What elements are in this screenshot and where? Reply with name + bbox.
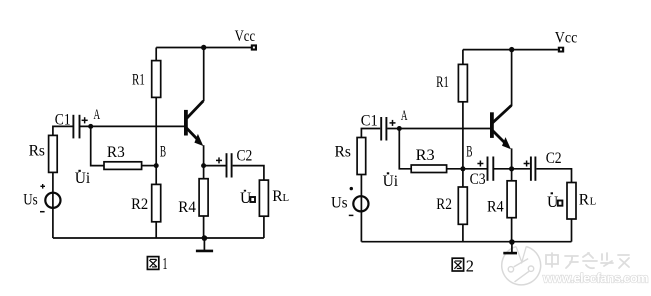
wire node A down to R3	[91, 126, 104, 165]
resistor R4	[199, 179, 208, 216]
label 图1 fig1	[147, 257, 158, 270]
wire emitter node to C2 fig2	[512, 168, 530, 170]
node dot rail/collector fig2	[509, 47, 514, 52]
resistor Rs fig2	[357, 138, 366, 175]
capacitor C2	[227, 153, 232, 177]
wire Rs through source Us to bottom rail fig2	[360, 175, 362, 242]
plus sign at C2 fig1	[216, 157, 222, 163]
wire base line fig2	[387, 128, 490, 130]
square o of Uo fig1	[250, 197, 255, 202]
plus sign at C1 fig1	[82, 117, 88, 123]
node ground fig2	[509, 239, 515, 245]
svg-text:C1: C1	[361, 113, 378, 130]
svg-text:2: 2	[466, 256, 474, 275]
ground stub fig1	[203, 238, 205, 250]
wire collector to Vcc rail	[203, 48, 205, 102]
svg-text:www.elecfans.com: www.elecfans.com	[542, 272, 649, 286]
wire R4 to bottom rail fig2	[511, 218, 513, 242]
ground bar fig1	[196, 250, 213, 253]
label 图2 fig2	[452, 258, 463, 271]
svg-text:A: A	[401, 108, 408, 124]
node emitter fig1	[201, 163, 206, 168]
node A fig2	[397, 126, 402, 131]
svg-text:C2: C2	[237, 148, 253, 165]
Vcc terminal fig1	[251, 44, 257, 50]
wire R1 bottom to node B	[155, 97, 157, 165]
capacitor C1 fig2	[381, 117, 386, 141]
Q1 base bar	[184, 110, 188, 136]
wire bottom rail fig1	[53, 237, 264, 239]
svg-text:R4: R4	[487, 199, 504, 216]
node ground fig1	[202, 235, 208, 241]
svg-text:C2: C2	[546, 150, 562, 167]
wire C1 left lead fig2	[361, 129, 380, 138]
wire node A down to R3 fig2	[399, 129, 411, 169]
svg-text:Ui: Ui	[383, 173, 399, 190]
ground bar fig2	[503, 252, 517, 255]
svg-text:B: B	[466, 144, 472, 161]
resistor R4 fig2	[507, 181, 516, 218]
capacitor C3 fig2	[488, 157, 494, 181]
wire emitter to node	[203, 145, 205, 165]
resistor Rs	[49, 135, 58, 172]
plus sign at Us fig1	[40, 184, 45, 189]
wire emitter node to C2	[204, 165, 226, 167]
minus sign at Us fig1	[40, 211, 45, 213]
watermark chinese characters (approximation strokes)	[546, 253, 629, 268]
node B fig2	[460, 166, 465, 171]
svg-text:Us: Us	[23, 191, 37, 208]
svg-text:R2: R2	[436, 196, 452, 213]
resistor RL	[259, 180, 268, 216]
svg-text:R3: R3	[416, 147, 435, 164]
svg-text:R1: R1	[132, 71, 145, 88]
dot of U in Uo fig2	[551, 192, 553, 194]
wire RL to bottom rail fig2	[571, 219, 573, 242]
source Us circle	[45, 193, 60, 208]
ground stub fig2	[511, 242, 513, 253]
watermark logo circle	[502, 246, 541, 285]
minus sign at Us fig2	[349, 214, 354, 216]
Q2 collector slant	[493, 105, 512, 122]
wire R4 to bottom rail	[203, 216, 205, 238]
svg-text:R: R	[579, 192, 590, 209]
plus sign at C3 fig2	[477, 161, 483, 167]
svg-text:C1: C1	[55, 111, 71, 128]
wire C1 left lead	[53, 126, 73, 135]
Q1 emitter slant	[187, 128, 200, 142]
resistor R1 fig2	[458, 64, 467, 101]
svg-text:R4: R4	[178, 199, 196, 216]
resistor RL fig2	[567, 183, 576, 220]
plus sign at C2 fig2	[524, 161, 530, 167]
resistor R2	[152, 184, 161, 221]
capacitor C2 fig2	[531, 157, 536, 181]
wire R2 to bottom rail fig2	[462, 224, 464, 241]
svg-text:Vcc: Vcc	[235, 28, 256, 45]
wire R1 top lead fig2	[462, 50, 464, 65]
svg-text:C3: C3	[470, 171, 486, 188]
wire emitter node to R4 fig2	[511, 169, 513, 181]
wire collector to Vcc rail fig2	[511, 50, 513, 106]
svg-text:Rs: Rs	[335, 143, 351, 160]
Q2 base bar	[490, 112, 494, 138]
wire RL to bottom rail	[263, 216, 265, 238]
wire emitter node to R4	[203, 166, 205, 179]
square o of Uo fig2	[558, 201, 563, 206]
dot of U in Ui fig1	[78, 170, 80, 172]
plus sign at C1 fig2	[390, 120, 396, 126]
node B fig1	[154, 163, 159, 168]
wire C2 to RL	[233, 166, 264, 181]
svg-text:B: B	[160, 143, 166, 160]
dot of U in Uo fig1	[244, 190, 246, 192]
plus polarity dot at Us fig2	[350, 187, 353, 190]
transistor Q1	[184, 110, 188, 136]
resistor R3 fig2	[411, 165, 446, 173]
wire R3 to node B	[142, 165, 157, 167]
node A fig1	[88, 124, 93, 129]
wire Vcc rail fig1	[156, 47, 251, 49]
wire bottom rail fig2	[361, 241, 571, 243]
dot of U in Ui fig2	[387, 172, 389, 174]
wire node B to R2 fig2	[462, 169, 464, 187]
svg-text:R2: R2	[131, 196, 148, 213]
wire C3 to emitter node fig2	[493, 168, 511, 170]
svg-text:Ui: Ui	[75, 170, 91, 187]
wire node B to R2	[155, 166, 157, 185]
wire Vcc rail fig2	[463, 49, 558, 51]
svg-text:1: 1	[162, 254, 167, 273]
resistor R3	[104, 162, 142, 170]
svg-text:Rs: Rs	[29, 142, 45, 159]
capacitor C1	[73, 115, 79, 139]
svg-text:U: U	[547, 194, 558, 211]
Q2 emitter arrow	[502, 137, 511, 149]
svg-text:A: A	[94, 107, 101, 123]
transistor Q2	[490, 112, 494, 138]
wire C2 to RL fig2	[536, 169, 571, 183]
svg-text:L: L	[590, 196, 597, 208]
svg-text:R3: R3	[107, 144, 125, 161]
wire R1 top lead	[155, 48, 157, 61]
wire emitter to node fig2	[511, 148, 513, 168]
wire Rs through source Us to bottom rail	[52, 172, 54, 238]
Q2 emitter slant	[493, 131, 507, 145]
wire R2 to bottom rail	[155, 222, 157, 238]
node dot rail/collector fig1	[201, 45, 206, 50]
svg-text:Us: Us	[331, 195, 348, 212]
node emitter fig2	[509, 166, 514, 171]
resistor R2 fig2	[458, 187, 467, 224]
Q1 emitter arrow	[194, 134, 203, 146]
svg-text:Vcc: Vcc	[555, 30, 578, 47]
Q1 collector slant	[187, 101, 204, 119]
svg-text:R1: R1	[436, 74, 449, 91]
wire R3 to node B fig2	[447, 168, 463, 170]
wire node B to C3 fig2	[463, 168, 487, 170]
resistor R1	[152, 61, 161, 98]
wire R1 bottom to node B fig2	[462, 102, 464, 169]
Vcc terminal fig2	[558, 47, 564, 53]
wire base line from C1 to transistor base	[80, 125, 184, 127]
source Us circle fig2	[353, 196, 368, 211]
